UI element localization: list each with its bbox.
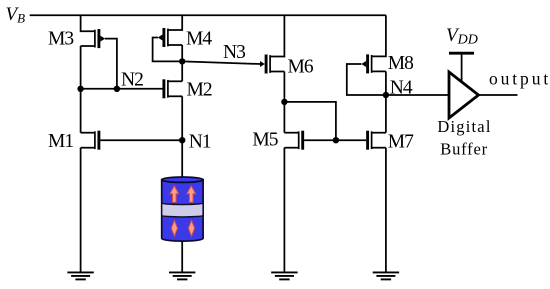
svg-text:M2: M2 <box>187 80 212 101</box>
wire M7 source to ground <box>385 148 387 273</box>
wire rail drop to M3 drain <box>81 15 95 31</box>
wire M1 gate to N1 <box>100 139 182 141</box>
wire M4 source to M2 drain <box>181 45 183 81</box>
wire mirror node to gate line <box>284 102 336 140</box>
transistor M1 <box>81 131 99 150</box>
svg-text:N2: N2 <box>121 69 143 90</box>
transistor M3 <box>81 29 106 48</box>
MTJ top arrows <box>170 186 196 202</box>
MTJ bottom diamonds <box>171 220 194 236</box>
svg-text:Digital: Digital <box>437 117 491 136</box>
svg-text:VDD: VDD <box>446 25 478 48</box>
MTJ device <box>162 177 203 241</box>
svg-text:N1: N1 <box>189 131 211 152</box>
node dot mirror <box>281 99 287 105</box>
wire N1 to MTJ <box>181 140 183 178</box>
node dot N2 <box>114 86 120 92</box>
wire M3 gate to node N2 <box>105 39 117 89</box>
wire rail drop to M4 drain <box>168 15 182 30</box>
svg-text:N3: N3 <box>223 42 245 63</box>
ground MTJ <box>169 272 195 279</box>
wire M4 gate loop to source node <box>153 38 183 62</box>
node dot gate line <box>333 137 339 143</box>
ground M1 <box>67 272 93 279</box>
wire MTJ to ground <box>181 241 183 273</box>
wire M8 source to N4 <box>385 71 387 95</box>
transistor M8 <box>361 54 386 73</box>
node dot left column N2 <box>77 86 83 92</box>
wire M5 gate to M7 gate <box>304 139 366 141</box>
wire M3 source down to M1 drain <box>80 46 82 133</box>
wire rail end drop to M8 drain <box>372 15 386 56</box>
svg-text:M3: M3 <box>48 29 73 50</box>
svg-text:Buffer: Buffer <box>440 140 488 159</box>
transistor M6 <box>266 55 284 74</box>
svg-text:N4: N4 <box>390 78 413 99</box>
node dot M4 source / N3 <box>179 58 185 64</box>
svg-text:M6: M6 <box>288 56 314 77</box>
transistor M5 <box>284 131 302 150</box>
svg-text:VB: VB <box>6 4 26 26</box>
wire M2 source to N1 <box>181 96 183 140</box>
node dot N4 <box>383 92 389 98</box>
wire N3 slanted <box>182 61 260 64</box>
svg-text:output: output <box>489 69 550 89</box>
svg-text:M1: M1 <box>48 131 73 152</box>
ground M5 <box>271 272 297 279</box>
wire M5 source to ground <box>283 148 285 273</box>
arrow into M6 gate <box>260 61 265 67</box>
svg-text:M8: M8 <box>388 53 413 74</box>
svg-text:M7: M7 <box>388 132 414 153</box>
svg-text:M4: M4 <box>186 29 212 50</box>
wire M8 gate loop to N4 <box>347 64 386 95</box>
transistor M4 <box>158 28 183 47</box>
node dot N1 <box>179 137 185 143</box>
wire N4 down to M7 drain <box>385 95 387 133</box>
wire VDD stem <box>461 53 463 82</box>
op-amp digital buffer triangle <box>449 72 479 118</box>
wire M6 source down <box>283 72 285 133</box>
transistor M7 <box>368 131 386 150</box>
wire node N2 horizontal <box>81 88 163 90</box>
wire N4 to buffer input <box>386 94 449 96</box>
wire rail drop to M6 drain <box>270 15 284 56</box>
svg-text:M5: M5 <box>252 130 277 151</box>
transistor M2 <box>164 79 182 98</box>
wire M1 source to ground <box>80 148 82 273</box>
wire top rail VB <box>30 14 386 16</box>
ground M7 <box>373 272 399 279</box>
wire buffer output <box>479 94 518 96</box>
VDD supply bar <box>449 52 474 55</box>
